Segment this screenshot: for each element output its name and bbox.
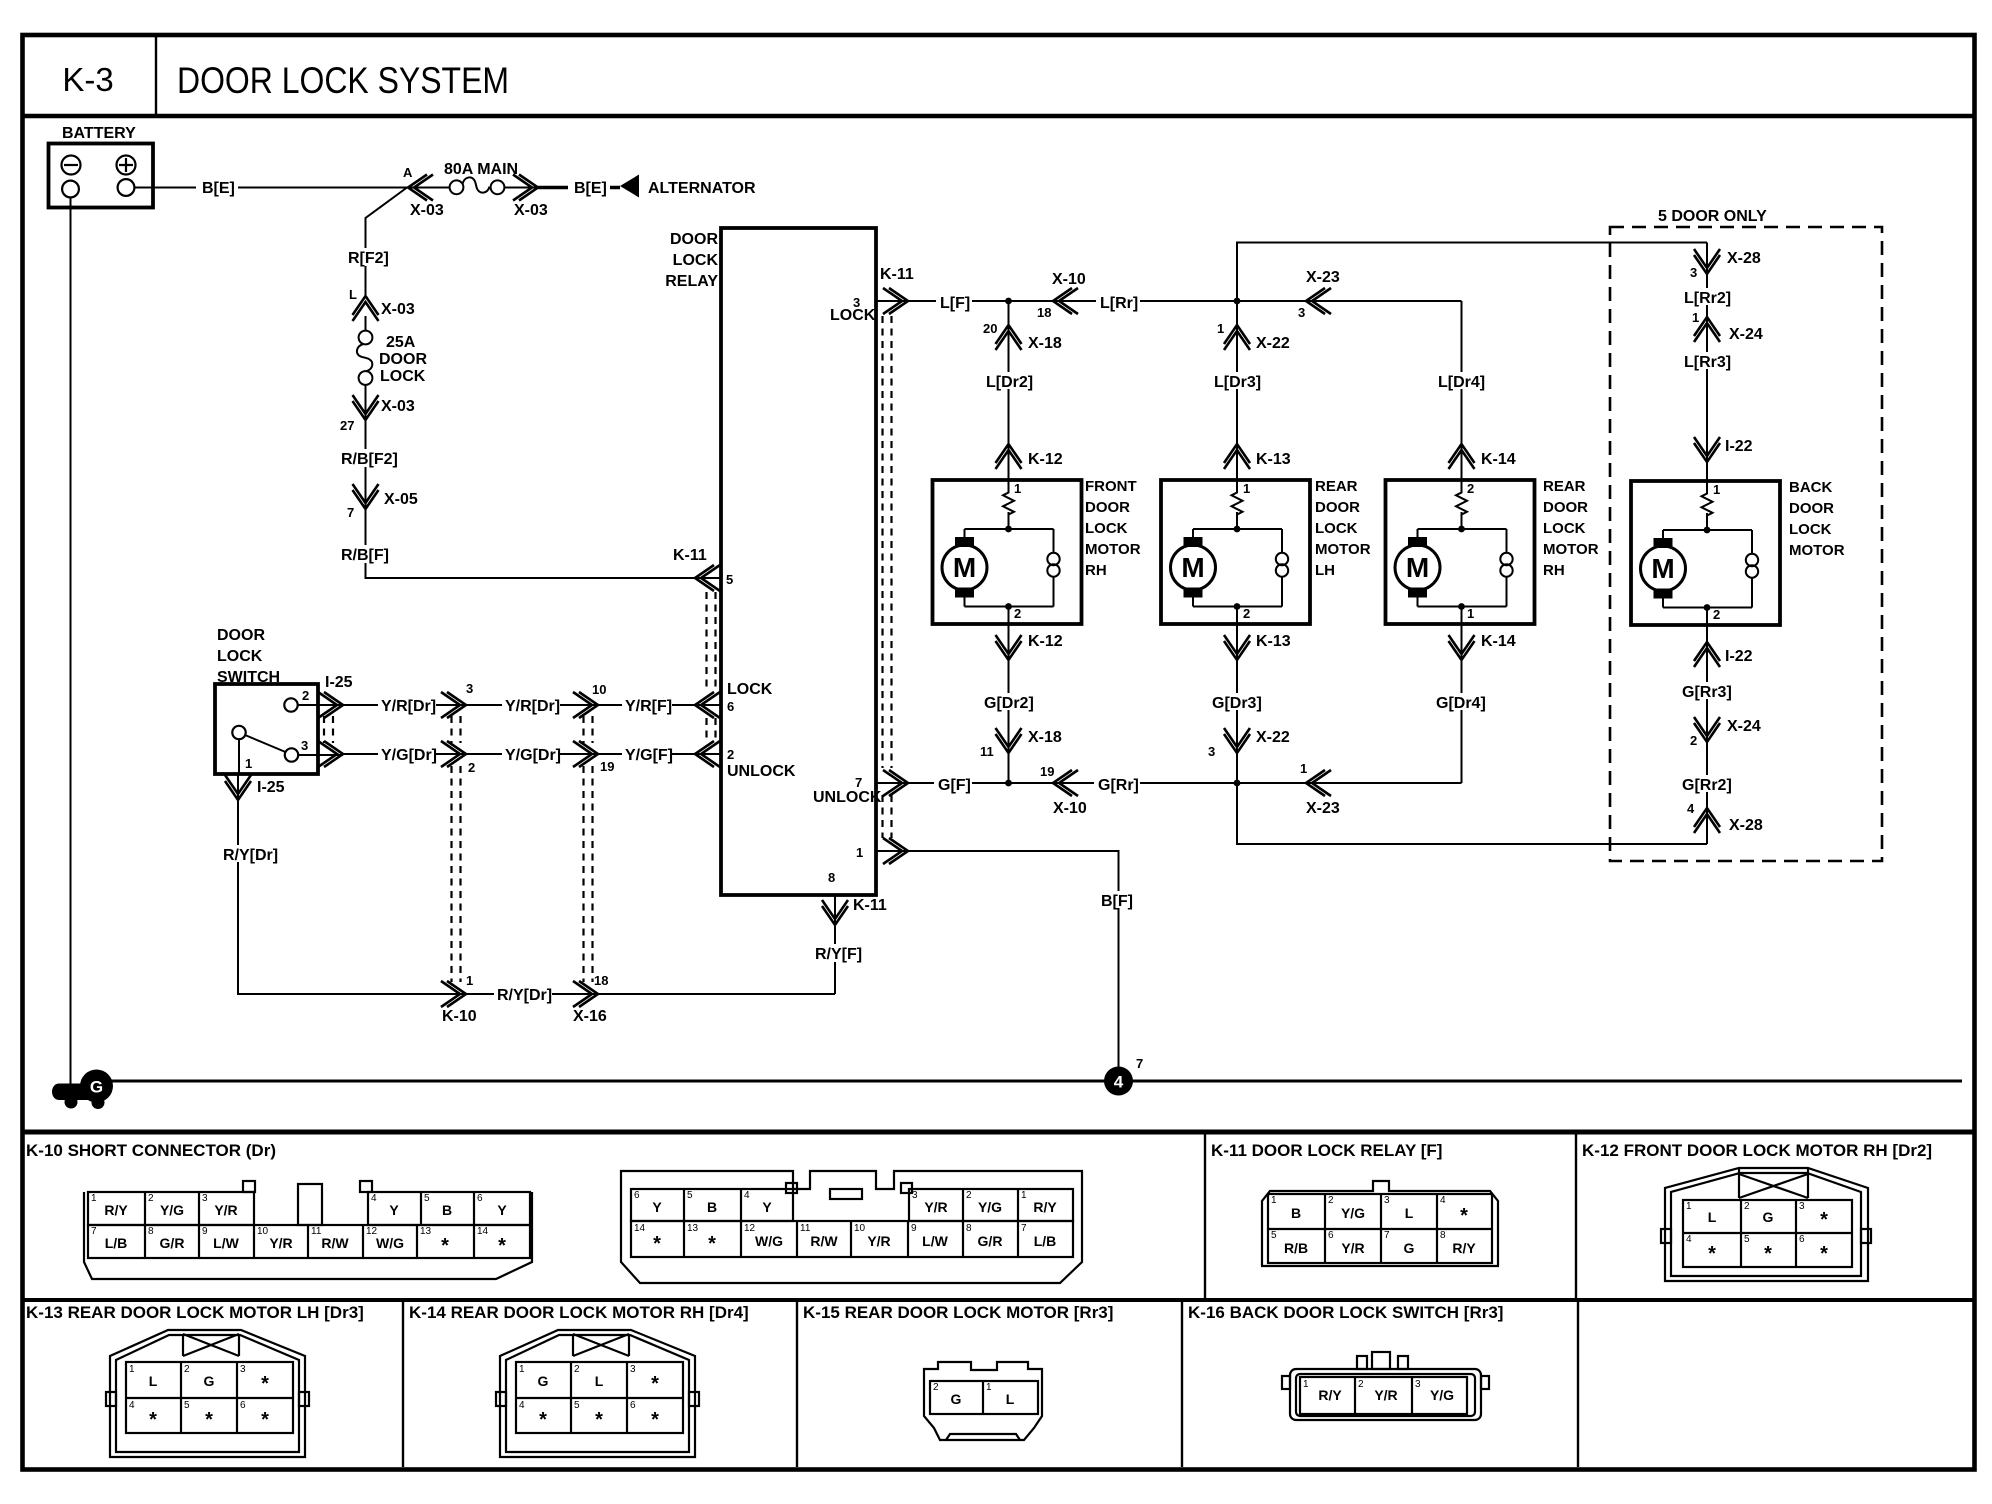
svg-text:Y/R: Y/R xyxy=(269,1235,292,1251)
svg-text:UNLOCK: UNLOCK xyxy=(813,789,882,806)
svg-text:L: L xyxy=(149,1373,158,1389)
node G junction rear xyxy=(1234,780,1241,787)
connector X-16 pin 10 xyxy=(573,682,606,718)
svg-text:Y: Y xyxy=(652,1199,662,1215)
K-12 connector drawing xyxy=(1661,1168,1871,1281)
svg-text:G: G xyxy=(204,1373,215,1389)
wire Y/R row xyxy=(343,704,721,706)
K-10 connector drawing right xyxy=(621,1171,1082,1283)
K-12 cell labels xyxy=(1686,1201,1828,1265)
svg-text:3: 3 xyxy=(1208,744,1215,759)
label R/Y[F] xyxy=(812,944,868,963)
K-13 connector drawing xyxy=(106,1330,309,1457)
svg-text:4: 4 xyxy=(1686,1234,1692,1245)
svg-text:L[Rr2]: L[Rr2] xyxy=(1684,290,1731,307)
svg-text:2: 2 xyxy=(1328,1195,1334,1206)
svg-text:B: B xyxy=(442,1202,452,1218)
svg-text:X-24: X-24 xyxy=(1727,718,1761,735)
svg-text:10: 10 xyxy=(592,682,606,697)
svg-text:2: 2 xyxy=(1713,607,1720,622)
svg-text:19: 19 xyxy=(1040,764,1054,779)
svg-text:G/R: G/R xyxy=(978,1233,1003,1249)
svg-text:*: * xyxy=(539,1409,547,1431)
svg-text:3: 3 xyxy=(301,738,308,753)
svg-text:1: 1 xyxy=(1217,321,1224,336)
label L[F] xyxy=(936,293,972,312)
svg-text:MOTOR: MOTOR xyxy=(1315,541,1371,558)
relay connector dashed body right xyxy=(883,316,892,838)
rear LH column lower xyxy=(1236,624,1238,783)
svg-text:3: 3 xyxy=(1298,305,1305,320)
svg-text:1: 1 xyxy=(1014,481,1021,496)
svg-text:RH: RH xyxy=(1085,562,1107,579)
svg-text:Y/R[Dr]: Y/R[Dr] xyxy=(505,698,560,715)
svg-text:3: 3 xyxy=(630,1364,636,1375)
label L[Rr] xyxy=(1096,293,1140,312)
table headers row2 xyxy=(26,1303,1503,1322)
svg-text:2: 2 xyxy=(1243,606,1250,621)
svg-text:R/Y: R/Y xyxy=(1033,1199,1057,1215)
svg-text:W/G: W/G xyxy=(755,1233,783,1249)
svg-text:I-22: I-22 xyxy=(1725,648,1753,665)
relay pin 2 UNLOCK xyxy=(695,741,796,780)
svg-text:Y/R: Y/R xyxy=(924,1199,947,1215)
svg-text:LOCK: LOCK xyxy=(1085,520,1128,537)
svg-text:10: 10 xyxy=(854,1223,866,1234)
connector K-14 lower xyxy=(1449,633,1516,660)
svg-text:2: 2 xyxy=(1014,606,1021,621)
rear RH column lower xyxy=(1461,624,1463,783)
door lock switch xyxy=(215,627,318,774)
relay pin 5 connector K-11 xyxy=(673,547,733,591)
svg-text:G[F]: G[F] xyxy=(938,777,971,794)
svg-text:K-3: K-3 xyxy=(62,61,113,98)
K-10 left cell labels xyxy=(91,1193,507,1257)
svg-text:L/B: L/B xyxy=(105,1235,128,1251)
svg-text:LH: LH xyxy=(1315,562,1335,579)
svg-text:B: B xyxy=(707,1199,717,1215)
svg-text:2: 2 xyxy=(966,1190,972,1201)
connector K-12 lower xyxy=(996,633,1063,660)
svg-text:K-13: K-13 xyxy=(1256,633,1291,650)
svg-text:LOCK: LOCK xyxy=(1789,521,1832,538)
svg-text:L[Rr]: L[Rr] xyxy=(1100,295,1138,312)
svg-text:B: B xyxy=(1291,1205,1301,1221)
svg-text:K-16 BACK DOOR LOCK SWITCH [Rr: K-16 BACK DOOR LOCK SWITCH [Rr3] xyxy=(1188,1303,1503,1322)
svg-text:G[Rr2]: G[Rr2] xyxy=(1682,777,1732,794)
svg-text:DOOR: DOOR xyxy=(1543,499,1588,516)
svg-text:80A MAIN: 80A MAIN xyxy=(444,161,518,178)
back door column upper xyxy=(1706,243,1708,482)
svg-text:2: 2 xyxy=(302,688,309,703)
svg-text:3: 3 xyxy=(202,1193,208,1204)
svg-text:DOOR: DOOR xyxy=(379,351,427,368)
svg-text:DOOR: DOOR xyxy=(1085,499,1130,516)
svg-text:G: G xyxy=(951,1391,962,1407)
label B[F] xyxy=(1098,891,1136,910)
svg-text:7: 7 xyxy=(347,505,354,520)
svg-text:L: L xyxy=(349,287,357,302)
svg-text:8: 8 xyxy=(828,870,835,885)
connector X-24 pin 2 xyxy=(1690,717,1761,748)
svg-text:W/G: W/G xyxy=(376,1235,404,1251)
connector K-13 upper xyxy=(1224,444,1291,469)
svg-text:I-25: I-25 xyxy=(257,779,285,796)
svg-text:2: 2 xyxy=(184,1364,190,1375)
svg-text:5: 5 xyxy=(726,572,733,587)
svg-text:G: G xyxy=(90,1078,103,1097)
connector X-23 bottom xyxy=(1300,761,1340,817)
svg-text:G[Dr4]: G[Dr4] xyxy=(1436,695,1486,712)
svg-text:4: 4 xyxy=(1114,1073,1124,1092)
svg-text:G: G xyxy=(538,1373,549,1389)
svg-text:R/B[F]: R/B[F] xyxy=(341,547,389,564)
connector X-05 xyxy=(347,484,418,520)
svg-text:B[E]: B[E] xyxy=(202,180,235,197)
svg-text:3: 3 xyxy=(1415,1379,1421,1390)
svg-text:Y/G[Dr]: Y/G[Dr] xyxy=(505,747,561,764)
svg-text:L: L xyxy=(595,1373,604,1389)
svg-text:L[Dr2]: L[Dr2] xyxy=(986,374,1033,391)
K-14 cell labels xyxy=(519,1364,659,1431)
rear LH column upper xyxy=(1236,301,1238,480)
ground symbol G xyxy=(52,1070,113,1110)
connector X-22 pin 3 xyxy=(1208,728,1290,759)
connector X-23 top xyxy=(1298,269,1340,320)
5 door only dashed box xyxy=(1610,208,1882,861)
svg-text:2: 2 xyxy=(468,760,475,775)
svg-text:LOCK: LOCK xyxy=(1315,520,1358,537)
svg-text:L/W: L/W xyxy=(922,1233,948,1249)
svg-text:7: 7 xyxy=(855,775,862,790)
svg-text:K-12: K-12 xyxy=(1028,451,1063,468)
svg-text:1: 1 xyxy=(1692,310,1699,325)
svg-text:R/B: R/B xyxy=(1284,1240,1308,1256)
label R[F2] xyxy=(344,248,390,267)
svg-text:X-23: X-23 xyxy=(1306,800,1340,817)
svg-text:4: 4 xyxy=(1440,1195,1446,1206)
svg-text:ALTERNATOR: ALTERNATOR xyxy=(648,180,756,197)
svg-text:Y/G[Dr]: Y/G[Dr] xyxy=(381,747,437,764)
connector X-18 pin 20 xyxy=(983,321,1062,352)
wire G row lower run to 5door xyxy=(1237,783,1707,844)
svg-text:Y/G: Y/G xyxy=(978,1199,1002,1215)
svg-text:RH: RH xyxy=(1543,562,1565,579)
svg-text:G: G xyxy=(1404,1240,1415,1256)
wire Y/G row xyxy=(343,753,721,755)
wire L[F] row xyxy=(876,300,1462,302)
relay pin 6 LOCK xyxy=(695,681,773,718)
svg-text:R/Y[F]: R/Y[F] xyxy=(815,946,862,963)
svg-text:R[F2]: R[F2] xyxy=(348,250,389,267)
svg-text:L/B: L/B xyxy=(1034,1233,1057,1249)
svg-text:3: 3 xyxy=(1799,1201,1805,1212)
svg-text:MOTOR: MOTOR xyxy=(1789,542,1845,559)
connector X-24 pin 1 xyxy=(1692,310,1763,343)
connector X-03 on battery feed column xyxy=(349,287,415,321)
svg-text:DOOR: DOOR xyxy=(1315,499,1360,516)
svg-text:*: * xyxy=(1708,1243,1716,1265)
svg-text:X-05: X-05 xyxy=(384,491,418,508)
K-15 connector drawing xyxy=(924,1362,1042,1440)
label Y/R[F] xyxy=(622,696,672,715)
svg-text:X-28: X-28 xyxy=(1729,817,1763,834)
svg-text:X-22: X-22 xyxy=(1256,729,1290,746)
dashed X-16 body xyxy=(584,716,593,982)
svg-text:LOCK: LOCK xyxy=(673,252,719,269)
connector K-13 lower xyxy=(1224,633,1291,660)
svg-text:K-13: K-13 xyxy=(1256,451,1291,468)
fuse 25A DOOR LOCK xyxy=(357,316,428,400)
svg-text:X-22: X-22 xyxy=(1256,335,1290,352)
K-16 connector drawing xyxy=(1282,1352,1489,1420)
svg-text:1: 1 xyxy=(1021,1190,1027,1201)
svg-text:7: 7 xyxy=(91,1226,97,1237)
svg-text:1: 1 xyxy=(1303,1379,1309,1390)
svg-text:19: 19 xyxy=(600,759,614,774)
svg-text:R/Y: R/Y xyxy=(1452,1240,1476,1256)
svg-text:6: 6 xyxy=(727,699,734,714)
connector I-25 top xyxy=(298,674,353,718)
wire top run to 5door xyxy=(1237,243,1707,302)
svg-text:G[Rr]: G[Rr] xyxy=(1098,777,1139,794)
rear RH column upper xyxy=(1461,301,1463,480)
label G[Dr2] xyxy=(982,693,1036,712)
svg-text:1: 1 xyxy=(1713,482,1720,497)
svg-text:K-11: K-11 xyxy=(880,266,914,283)
svg-text:1: 1 xyxy=(519,1364,525,1375)
svg-text:X-10: X-10 xyxy=(1052,271,1086,288)
svg-text:3: 3 xyxy=(466,681,473,696)
label L[Dr3] xyxy=(1212,372,1264,391)
svg-text:1: 1 xyxy=(1243,481,1250,496)
label G[Dr4] xyxy=(1434,693,1488,712)
svg-text:3: 3 xyxy=(1690,265,1697,280)
connector I-25 bottom row xyxy=(298,716,343,767)
svg-text:X-03: X-03 xyxy=(381,398,415,415)
svg-text:X-03: X-03 xyxy=(514,202,548,219)
label L[Rr2] xyxy=(1682,288,1734,307)
dashed K-10 body xyxy=(452,716,461,982)
svg-text:1: 1 xyxy=(466,973,473,988)
relay pin 3 LOCK connector K-11 xyxy=(830,266,914,324)
svg-text:L: L xyxy=(1006,1391,1015,1407)
connector X-03 right of fuse xyxy=(513,175,548,220)
K-10 right cell labels xyxy=(634,1190,1057,1255)
svg-text:8: 8 xyxy=(148,1226,154,1237)
svg-text:5: 5 xyxy=(424,1193,430,1204)
wire R/B to relay pin 5 xyxy=(366,400,722,578)
connector K-12 upper xyxy=(996,444,1063,469)
svg-text:4: 4 xyxy=(519,1400,525,1411)
label Y/R[Dr] 2 xyxy=(502,696,560,715)
title K-3 xyxy=(62,61,113,98)
K-15 cell labels xyxy=(933,1382,1015,1407)
front door column upper xyxy=(1008,301,1010,480)
wire relay pin1 to ground node xyxy=(876,851,1119,1081)
ground bus wire xyxy=(108,1080,1962,1083)
svg-text:DOOR: DOOR xyxy=(217,627,265,644)
svg-text:X-24: X-24 xyxy=(1729,326,1763,343)
svg-text:*: * xyxy=(1460,1205,1468,1227)
relay pin 8 connector K-11 xyxy=(822,870,887,994)
svg-text:7: 7 xyxy=(1021,1223,1027,1234)
svg-text:Y: Y xyxy=(389,1202,399,1218)
svg-text:L[Dr3]: L[Dr3] xyxy=(1214,374,1261,391)
alternator arrow xyxy=(620,175,756,198)
K-10 connector drawing left xyxy=(84,1181,532,1279)
K-16 cell labels xyxy=(1303,1379,1454,1403)
svg-text:1: 1 xyxy=(91,1193,97,1204)
svg-text:9: 9 xyxy=(911,1223,917,1234)
svg-text:R/B[F2]: R/B[F2] xyxy=(341,451,398,468)
svg-text:5: 5 xyxy=(1271,1230,1277,1241)
svg-text:LOCK: LOCK xyxy=(830,307,876,324)
svg-text:14: 14 xyxy=(634,1223,646,1234)
svg-text:R/W: R/W xyxy=(810,1233,838,1249)
svg-text:K-12: K-12 xyxy=(1028,633,1063,650)
svg-text:1: 1 xyxy=(1467,606,1474,621)
svg-text:LOCK: LOCK xyxy=(380,368,426,385)
svg-text:K-14 REAR DOOR LOCK MOTOR RH [: K-14 REAR DOOR LOCK MOTOR RH [Dr4] xyxy=(409,1303,749,1322)
svg-text:6: 6 xyxy=(1799,1234,1805,1245)
label G[Rr3] xyxy=(1680,682,1736,701)
svg-text:Y/R: Y/R xyxy=(1341,1240,1364,1256)
svg-text:*: * xyxy=(708,1233,716,1255)
svg-text:10: 10 xyxy=(257,1226,269,1237)
svg-text:K-14: K-14 xyxy=(1481,633,1516,650)
svg-text:FRONT: FRONT xyxy=(1085,478,1137,495)
svg-text:4: 4 xyxy=(744,1190,750,1201)
svg-text:27: 27 xyxy=(340,418,354,433)
svg-text:*: * xyxy=(205,1409,213,1431)
svg-text:2: 2 xyxy=(148,1193,154,1204)
svg-text:K-11: K-11 xyxy=(673,547,707,564)
label R/Y[Dr] bottom xyxy=(494,985,552,1004)
svg-text:5: 5 xyxy=(1744,1234,1750,1245)
front door column lower xyxy=(1008,624,1010,783)
svg-text:11: 11 xyxy=(800,1223,811,1234)
label G[F] xyxy=(934,775,972,794)
battery xyxy=(49,125,154,208)
connector X-16 pin 19 xyxy=(573,741,614,774)
relay pin 7 UNLOCK connector K-11 xyxy=(813,770,908,806)
svg-text:X-18: X-18 xyxy=(1028,335,1062,352)
svg-text:K-15 REAR DOOR LOCK MOTOR [Rr3: K-15 REAR DOOR LOCK MOTOR [Rr3] xyxy=(803,1303,1113,1322)
connector K-10 pin 2 xyxy=(441,741,475,775)
svg-text:Y: Y xyxy=(497,1202,507,1218)
svg-text:4: 4 xyxy=(1687,801,1695,816)
svg-text:UNLOCK: UNLOCK xyxy=(727,763,796,780)
connector X-10 top xyxy=(1037,271,1086,320)
svg-text:*: * xyxy=(261,1409,269,1431)
svg-text:LOCK: LOCK xyxy=(217,648,263,665)
svg-text:A: A xyxy=(403,165,413,180)
svg-text:3: 3 xyxy=(912,1190,918,1201)
table headers row1 xyxy=(26,1141,1932,1160)
label G[Rr2] xyxy=(1680,775,1736,794)
node 4 ground junction xyxy=(1104,1056,1143,1096)
connector X-18 pin 11 xyxy=(980,728,1062,759)
table grid xyxy=(23,1132,1976,1467)
connector X-22 pin 1 xyxy=(1217,321,1290,352)
svg-text:2: 2 xyxy=(574,1364,580,1375)
svg-text:7: 7 xyxy=(1384,1230,1390,1241)
label L[Rr3] xyxy=(1682,352,1734,371)
label Y/G[Dr] 2 xyxy=(502,745,561,764)
svg-text:3: 3 xyxy=(1384,1195,1390,1206)
svg-text:*: * xyxy=(595,1409,603,1431)
svg-text:X-18: X-18 xyxy=(1028,729,1062,746)
svg-text:Y/G: Y/G xyxy=(1430,1387,1454,1403)
svg-text:REAR: REAR xyxy=(1315,478,1358,495)
label B[E] right xyxy=(568,178,610,197)
svg-text:6: 6 xyxy=(634,1190,640,1201)
svg-text:5: 5 xyxy=(574,1400,580,1411)
K-13 cell labels xyxy=(129,1364,269,1431)
svg-text:Y/R: Y/R xyxy=(214,1202,237,1218)
svg-text:1: 1 xyxy=(1300,761,1307,776)
connector X-16 pin 18 bottom xyxy=(573,973,608,1025)
svg-text:LOCK: LOCK xyxy=(1543,520,1586,537)
relay pin 1 xyxy=(856,838,908,864)
svg-text:G: G xyxy=(1763,1209,1774,1225)
svg-text:1: 1 xyxy=(1686,1201,1692,1212)
label L[Dr4] xyxy=(1436,372,1488,391)
svg-text:*: * xyxy=(261,1373,269,1395)
svg-text:2: 2 xyxy=(1358,1379,1364,1390)
svg-text:K-14: K-14 xyxy=(1481,451,1516,468)
svg-text:*: * xyxy=(1820,1243,1828,1265)
svg-text:11: 11 xyxy=(311,1226,322,1237)
svg-text:K-13 REAR DOOR LOCK MOTOR LH [: K-13 REAR DOOR LOCK MOTOR LH [Dr3] xyxy=(26,1303,364,1322)
svg-text:5: 5 xyxy=(687,1190,693,1201)
svg-text:6: 6 xyxy=(477,1193,483,1204)
door lock relay box xyxy=(665,228,876,895)
label Y/G[Dr] 1 xyxy=(378,745,437,764)
svg-text:25A: 25A xyxy=(386,334,416,351)
svg-text:R/Y: R/Y xyxy=(1318,1387,1342,1403)
svg-text:1: 1 xyxy=(1271,1195,1277,1206)
wire switch pin1 down and across xyxy=(238,774,835,994)
rear door lock motor LH xyxy=(1161,478,1371,624)
svg-text:Y/R[F]: Y/R[F] xyxy=(625,698,672,715)
svg-text:G[Dr2]: G[Dr2] xyxy=(984,695,1034,712)
svg-text:BATTERY: BATTERY xyxy=(62,125,136,142)
connector X-10 bottom xyxy=(1040,764,1087,817)
svg-text:DOOR: DOOR xyxy=(670,231,718,248)
node A / connector X-03 xyxy=(403,165,444,219)
svg-text:6: 6 xyxy=(240,1400,246,1411)
svg-text:X-16: X-16 xyxy=(573,1008,607,1025)
svg-text:Y/G: Y/G xyxy=(1341,1205,1365,1221)
svg-text:11: 11 xyxy=(980,744,994,759)
svg-text:20: 20 xyxy=(983,321,997,336)
svg-text:*: * xyxy=(651,1409,659,1431)
svg-text:R/W: R/W xyxy=(321,1235,349,1251)
connector X-28 pin 3 xyxy=(1690,249,1761,280)
svg-text:2: 2 xyxy=(1467,481,1474,496)
svg-text:R/Y: R/Y xyxy=(104,1202,128,1218)
svg-text:REAR: REAR xyxy=(1543,478,1586,495)
svg-text:X-03: X-03 xyxy=(410,202,444,219)
svg-text:X-10: X-10 xyxy=(1053,800,1087,817)
svg-text:4: 4 xyxy=(371,1193,377,1204)
svg-text:RELAY: RELAY xyxy=(665,273,718,290)
connector I-25 below switch xyxy=(225,775,285,800)
svg-text:Y/R: Y/R xyxy=(867,1233,890,1249)
label B[E] xyxy=(196,178,238,197)
